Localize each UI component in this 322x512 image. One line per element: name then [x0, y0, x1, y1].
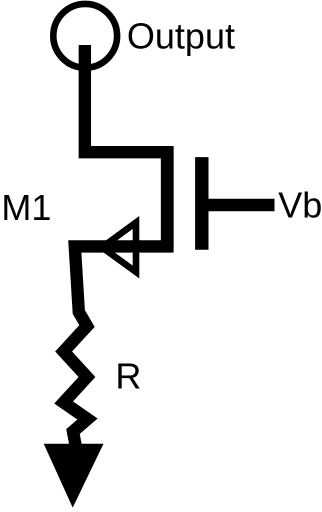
svg-text:Vb: Vb [278, 184, 322, 225]
svg-text:Output: Output [127, 15, 235, 56]
svg-text:M1: M1 [1, 187, 51, 228]
svg-text:R: R [115, 356, 141, 397]
